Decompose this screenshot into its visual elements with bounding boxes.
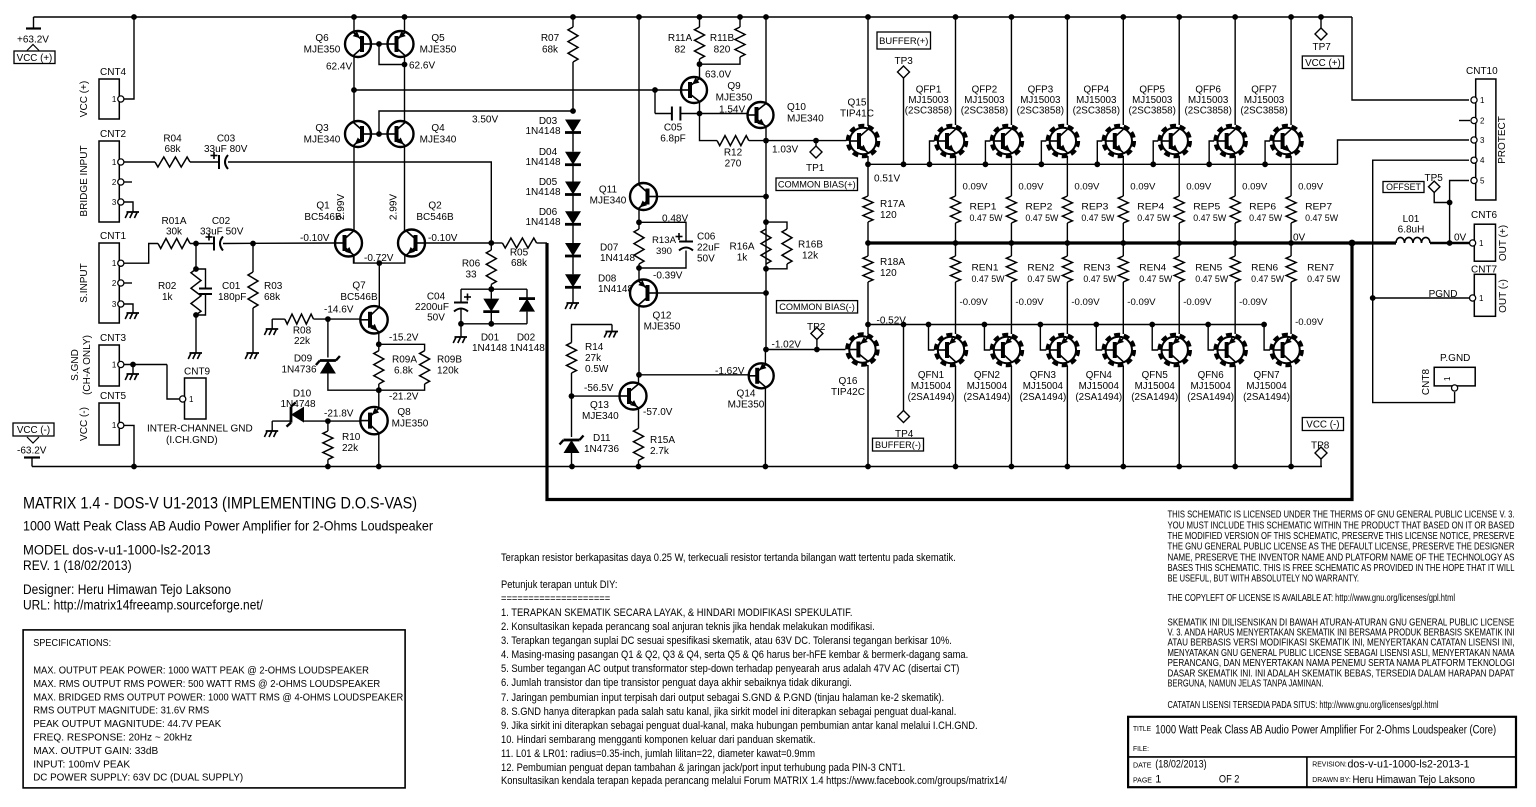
svg-text:CNT8: CNT8 [1421, 369, 1432, 396]
resistor R02 [191, 269, 201, 315]
svg-text:(2SC3858): (2SC3858) [905, 106, 952, 117]
wire Q13 collector [638, 375, 640, 385]
svg-text:D02: D02 [517, 333, 536, 344]
wire Q12 base to bias line [657, 292, 766, 294]
svg-text:QFN1: QFN1 [918, 370, 944, 381]
svg-text:(2SC3858): (2SC3858) [961, 106, 1008, 117]
svg-text:R09B: R09B [437, 355, 462, 366]
wire CNT2 pin2 stub [124, 181, 132, 183]
svg-text:68k: 68k [511, 258, 528, 269]
svg-text:FILE:: FILE: [1133, 744, 1149, 753]
svg-text:1N4736: 1N4736 [281, 365, 316, 376]
svg-text:0.47 5W: 0.47 5W [970, 213, 1004, 224]
svg-text:0.09V: 0.09V [1018, 182, 1044, 193]
svg-text:33: 33 [465, 270, 477, 281]
connector CNT8 P.GND [1434, 367, 1475, 386]
svg-text:Q11: Q11 [599, 185, 618, 196]
wire CNT4 pin1 to rail [124, 17, 134, 99]
svg-text:1N4148: 1N4148 [525, 157, 560, 168]
svg-text:D10: D10 [293, 389, 312, 400]
node R03 junction [250, 241, 256, 247]
svg-text:C03: C03 [217, 134, 236, 145]
node 1.54V [697, 111, 703, 117]
svg-text:TIP42C: TIP42C [831, 387, 865, 398]
wire REN6 to QFN6 [1234, 282, 1236, 334]
transistor QFN2 MJ15004 [992, 335, 1022, 365]
transistor Q16 TIP42C [847, 334, 877, 364]
node Q7 base / D09 [325, 316, 331, 322]
diode D02 [526, 289, 528, 298]
svg-text:Heru Himawan Tejo Laksono: Heru Himawan Tejo Laksono [1353, 774, 1476, 786]
svg-text:REVISION:: REVISION: [1312, 760, 1347, 769]
svg-text:1N4736: 1N4736 [584, 444, 619, 455]
svg-text:-14.6V: -14.6V [324, 305, 354, 316]
svg-text:-63.2V: -63.2V [17, 446, 47, 457]
wire R03 to ground [252, 308, 254, 346]
svg-text:33uF 50V: 33uF 50V [200, 227, 244, 238]
svg-text:REP4: REP4 [1137, 202, 1165, 213]
transistor Q5 MJE350 [388, 31, 414, 57]
resistor R04 [155, 157, 190, 167]
svg-text:Q14: Q14 [737, 389, 756, 400]
ground below diode chain [572, 287, 574, 296]
node R02/C01 junction top [193, 241, 199, 247]
svg-text:1: 1 [1479, 294, 1484, 303]
connector CNT6 OUT(+) [1474, 224, 1495, 261]
wire Q16 collector to rail [867, 365, 869, 467]
svg-text:(2SA1494): (2SA1494) [908, 392, 955, 403]
svg-text:1: 1 [112, 95, 117, 104]
svg-text:-21.8V: -21.8V [324, 409, 354, 420]
node R13A top [636, 219, 642, 225]
svg-text:1: 1 [112, 421, 117, 430]
wire CNT3 to CNT9 [167, 365, 179, 400]
svg-text:MJE350: MJE350 [392, 419, 429, 430]
svg-text:-21.2V: -21.2V [389, 392, 419, 403]
node Q3 Q4 bases [376, 131, 382, 137]
svg-text:CNT3: CNT3 [100, 333, 127, 344]
svg-text:0.09V: 0.09V [1130, 182, 1156, 193]
wire column A x=354 [353, 17, 355, 263]
wire: VCC(+) rail drop to CNT10 pin 1 [1352, 17, 1469, 100]
resistor R16B parallel [766, 222, 787, 229]
resistor R06 [490, 243, 492, 250]
svg-text:BASES THIS SCHEMATIC. THIS IS: BASES THIS SCHEMATIC. THIS IS FREE SCHEM… [1168, 563, 1515, 574]
transistor Q8 MJE350 [360, 407, 387, 434]
wire to R02/C01 pair [195, 244, 197, 270]
svg-text:Q10: Q10 [787, 102, 806, 113]
svg-text:THIS SCHEMATIC IS LICENSED UND: THIS SCHEMATIC IS LICENSED UNDER THE THE… [1168, 510, 1515, 521]
resistor R11A [699, 17, 701, 27]
svg-text:DC POWER SUPPLY: 63V DC (DUAL: DC POWER SUPPLY: 63V DC (DUAL SUPPLY) [33, 772, 243, 784]
resistor R14 [572, 325, 613, 343]
wire Q12 collector down [638, 268, 640, 281]
transistor Q7 BC546B [360, 306, 387, 333]
svg-text:0.47 5W: 0.47 5W [1139, 274, 1173, 285]
diode D06 [572, 195, 574, 212]
svg-text:1N4748: 1N4748 [280, 399, 315, 410]
wire R01A to C02 [190, 243, 214, 245]
svg-text:R07: R07 [541, 33, 560, 44]
svg-text:0.47 5W: 0.47 5W [972, 274, 1006, 285]
svg-text:R16B: R16B [798, 240, 823, 251]
svg-text:6.8k: 6.8k [394, 366, 414, 377]
svg-text:(2SA1494): (2SA1494) [1131, 392, 1178, 403]
connector CNT4 VCC(+) [99, 79, 119, 119]
svg-text:QFN4: QFN4 [1086, 370, 1113, 381]
node R13A bottom [636, 265, 642, 271]
svg-text:MJ15004: MJ15004 [967, 381, 1008, 392]
svg-text:0V: 0V [1293, 233, 1306, 244]
resistor R01A [158, 239, 190, 249]
svg-text:2: 2 [112, 279, 117, 288]
capacitor C05 [654, 90, 656, 114]
svg-text:1N4148: 1N4148 [525, 126, 560, 137]
resistor R03 [252, 244, 254, 273]
svg-text:2: 2 [112, 178, 117, 187]
node buffer(-) line [865, 322, 871, 328]
svg-text:3: 3 [1480, 136, 1485, 145]
transistor QFP7 MJ15003 [1290, 17, 1292, 125]
wire Q11 emitter to R13A [638, 209, 640, 222]
wire CNT1 pin2 stub [124, 282, 132, 284]
svg-text:MJ15004: MJ15004 [1246, 381, 1287, 392]
wire: top VCC(+) rail [34, 16, 1353, 18]
svg-text:OUT (-): OUT (-) [1498, 279, 1509, 313]
connector CNT1 S.INPUT [99, 243, 119, 323]
svg-text:C06: C06 [697, 232, 716, 243]
svg-text:MJ15003: MJ15003 [1244, 95, 1285, 106]
wire QFP4 emitter [1122, 156, 1124, 196]
svg-text:SPECIFICATIONS:: SPECIFICATIONS: [33, 637, 111, 649]
svg-text:MJE340: MJE340 [420, 135, 457, 146]
svg-text:1000 Watt Peak Class AB Audio: 1000 Watt Peak Class AB Audio Power Ampl… [23, 517, 433, 533]
svg-text:REP7: REP7 [1305, 202, 1332, 213]
svg-text:TP8: TP8 [1311, 441, 1330, 452]
svg-text:C05: C05 [664, 123, 683, 134]
svg-text:REP6: REP6 [1249, 202, 1276, 213]
svg-text:820: 820 [714, 45, 731, 56]
svg-text:Q1: Q1 [316, 201, 330, 212]
svg-text:1.03V: 1.03V [772, 145, 798, 156]
svg-text:30k: 30k [166, 227, 183, 238]
svg-text:REN5: REN5 [1195, 263, 1222, 274]
svg-text:BC546B: BC546B [340, 292, 378, 303]
svg-text:Designer: Heru Himawan Tejo La: Designer: Heru Himawan Tejo Laksono [23, 582, 231, 597]
svg-text:R13A: R13A [652, 235, 677, 246]
wire R04 to C03 [190, 161, 219, 163]
svg-text:MJE350: MJE350 [420, 45, 457, 56]
svg-text:REP2: REP2 [1025, 202, 1052, 213]
node Q11 base [763, 194, 769, 200]
svg-text:6.8uH: 6.8uH [1398, 225, 1425, 236]
transistor QFP1 MJ15003 [955, 17, 957, 125]
svg-text:0.47 5W: 0.47 5W [1195, 274, 1229, 285]
svg-text:-0.09V: -0.09V [1127, 297, 1156, 308]
svg-text:0.47 5W: 0.47 5W [1083, 274, 1117, 285]
svg-text:MAX. RMS OUTPUT RMS POWER: 500: MAX. RMS OUTPUT RMS POWER: 500 WATT RMS … [33, 678, 380, 690]
svg-text:CNT9: CNT9 [184, 367, 211, 378]
svg-text:0.09V: 0.09V [1074, 182, 1100, 193]
svg-text:-57.0V: -57.0V [643, 407, 673, 418]
test point TP2 [814, 347, 820, 353]
transistor Q15 TIP41C [848, 126, 878, 156]
wire QFP7 emitter [1290, 156, 1292, 196]
node TP5 junction [1447, 200, 1453, 206]
label COMMON BIAS(+) [776, 178, 858, 191]
test point TP3 [901, 161, 907, 167]
resistor REP7 [1286, 196, 1296, 223]
svg-text:REN7: REN7 [1307, 263, 1334, 274]
resistor REN1 [955, 243, 957, 256]
svg-text:(18/02/2013): (18/02/2013) [1155, 759, 1207, 771]
svg-text:4: 4 [1480, 156, 1485, 165]
svg-text:VCC (-): VCC (-) [79, 407, 90, 441]
svg-text:-1.62V: -1.62V [715, 366, 745, 377]
resistor R15A [634, 428, 644, 460]
wire Q16 base line [766, 349, 846, 351]
node Q12/Q13 junction [636, 372, 642, 378]
wire REN1 to QFN1 [955, 282, 957, 334]
svg-text:3.50V: 3.50V [472, 115, 498, 126]
svg-text:FREQ. RESPONSE: 20Hz ~ 20kHz: FREQ. RESPONSE: 20Hz ~ 20kHz [33, 732, 192, 744]
svg-text:CNT5: CNT5 [100, 391, 127, 402]
wire QFN4 collector to rail [1122, 366, 1124, 467]
svg-text:33uF 80V: 33uF 80V [204, 144, 248, 155]
svg-text:L01: L01 [1403, 214, 1420, 225]
svg-text:TP3: TP3 [895, 56, 914, 67]
node bus REP2 [1009, 240, 1015, 246]
svg-text:COMMON BIAS(-): COMMON BIAS(-) [779, 302, 855, 312]
svg-text:PAGE: PAGE [1133, 775, 1152, 784]
svg-text:MJ15004: MJ15004 [1135, 381, 1176, 392]
svg-text:R10: R10 [342, 432, 361, 443]
svg-text:D01: D01 [481, 333, 500, 344]
transistor QFN3 MJ15004 [1048, 335, 1078, 365]
VCC(-) terminal bottom-left [13, 423, 54, 436]
svg-text:1: 1 [1155, 774, 1161, 786]
node Q5 Q6 bases [376, 41, 382, 47]
svg-text:S.GND: S.GND [70, 349, 81, 381]
node NFB at bus [1349, 240, 1356, 247]
svg-text:PGND: PGND [1429, 289, 1458, 300]
svg-text:R11B: R11B [710, 33, 735, 44]
svg-text:MJ15003: MJ15003 [1076, 95, 1117, 106]
wire Q9 emitter [699, 102, 701, 114]
svg-text:URL: http://matrix14freeamp.so: URL: http://matrix14freeamp.sourceforge.… [23, 598, 263, 613]
diode D03 [565, 120, 581, 133]
svg-text:MJ15003: MJ15003 [1188, 95, 1229, 106]
node bus REP5 [1176, 240, 1182, 246]
wire QFP6 emitter [1234, 156, 1236, 196]
wire column B x=404.5 [404, 17, 406, 243]
svg-text:(2SA1494): (2SA1494) [1075, 392, 1122, 403]
svg-text:TP2: TP2 [807, 322, 826, 333]
svg-text:1N4148: 1N4148 [525, 217, 560, 228]
node Q15 emitter / buffer(+) line [865, 161, 871, 167]
svg-text:MJE340: MJE340 [304, 135, 341, 146]
svg-text:-1.02V: -1.02V [772, 340, 802, 351]
svg-text:R02: R02 [158, 281, 177, 292]
svg-text:Q7: Q7 [352, 281, 366, 292]
svg-text:THE GNU GENERAL PUBLIC LICENSE: THE GNU GENERAL PUBLIC LICENSE AS THE DE… [1168, 542, 1515, 553]
resistor R09A [378, 344, 380, 350]
svg-text:QFP6: QFP6 [1195, 85, 1221, 96]
svg-text:REV. 1 (18/02/2013): REV. 1 (18/02/2013) [23, 558, 132, 573]
svg-text:CATATAN LISENSI TERSEDIA PADA: CATATAN LISENSI TERSEDIA PADA SITUS: htt… [1168, 700, 1439, 711]
resistor R07 [572, 17, 574, 27]
svg-text:INPUT: 100mV PEAK: INPUT: 100mV PEAK [33, 758, 130, 770]
wire Q6/Q5 base tie to 62.6V node [371, 43, 388, 45]
specifications box [23, 630, 405, 788]
svg-text:BUFFER(+): BUFFER(+) [879, 35, 928, 46]
capacitor C01 parallel loop [196, 269, 206, 289]
svg-text:0.47 5W: 0.47 5W [1025, 213, 1059, 224]
node input/NFB divider [488, 240, 494, 246]
svg-text:Q3: Q3 [315, 123, 329, 134]
svg-text:Q6: Q6 [315, 33, 329, 44]
svg-text:270: 270 [725, 159, 742, 170]
svg-text:RMS OUTPUT MAGNITUDE: 31.6V RM: RMS OUTPUT MAGNITUDE: 31.6V RMS [33, 705, 209, 717]
svg-text:R09A: R09A [392, 355, 417, 366]
svg-text:OFFSET: OFFSET [1386, 182, 1421, 192]
resistor REP5 [1174, 196, 1184, 223]
svg-text:Q9: Q9 [727, 81, 741, 92]
zener D10 [271, 424, 273, 431]
svg-text:50V: 50V [427, 313, 445, 324]
svg-text:S.INPUT: S.INPUT [79, 263, 90, 302]
node clamp top [488, 286, 494, 292]
svg-text:R15A: R15A [650, 435, 675, 446]
svg-text:REP1: REP1 [970, 202, 997, 213]
svg-text:-0.09V: -0.09V [1295, 317, 1324, 328]
svg-text:BE USEFUL, BUT WITH ABSOLUTELY: BE USEFUL, BUT WITH ABSOLUTELY NO WARRAN… [1168, 574, 1360, 585]
label VCC(-) right [1302, 418, 1343, 431]
diode D05 [572, 165, 574, 182]
svg-text:MJE340: MJE340 [582, 411, 619, 422]
transistor QFP6 MJ15003 [1234, 17, 1236, 125]
svg-text:VCC (+): VCC (+) [17, 53, 53, 64]
wire Q9 collector [699, 64, 701, 78]
svg-text:COMMON BIAS(+): COMMON BIAS(+) [778, 180, 856, 190]
junction dots R02/C01 [193, 266, 199, 272]
svg-text:Q4: Q4 [431, 123, 445, 134]
svg-text:DRAWN BY:: DRAWN BY: [1312, 775, 1351, 784]
svg-text:2: 2 [1480, 117, 1485, 126]
diode D04 [572, 133, 574, 152]
clamp network rails [461, 288, 527, 290]
svg-text:-0.09V: -0.09V [1071, 297, 1100, 308]
svg-text:C02: C02 [212, 216, 231, 227]
wire QFP6 base [1209, 141, 1214, 164]
node 62.6V [402, 62, 408, 68]
svg-text:(I.CH.GND): (I.CH.GND) [166, 435, 218, 446]
node mid rail at column A [351, 87, 357, 93]
wire Q11 base to bias line [657, 196, 766, 198]
svg-text:R06: R06 [462, 259, 481, 270]
resistor R09B parallel [379, 344, 425, 350]
transistor Q3 MJE340 [345, 121, 371, 147]
connector CNT3 S.GND [99, 345, 119, 386]
wire QFP3 base [1041, 141, 1046, 164]
wire Q14 emitter up [764, 350, 766, 365]
svg-text:TP5: TP5 [1425, 173, 1444, 184]
node bus REP4 [1120, 240, 1126, 246]
svg-text:VCC (+): VCC (+) [1305, 58, 1341, 69]
svg-text:Q5: Q5 [431, 33, 445, 44]
resistor R17A [867, 164, 869, 196]
svg-text:-0.10V: -0.10V [300, 233, 330, 244]
label BUFFER(+) [877, 32, 931, 49]
svg-text:390: 390 [656, 246, 672, 257]
svg-text:-15.2V: -15.2V [389, 333, 419, 344]
ground at CNT2 pin3 [132, 205, 134, 212]
wire QFN6 collector to rail [1234, 366, 1236, 467]
wire QFN3 collector to rail [1066, 366, 1068, 467]
svg-text:NAME, PRESERVE THE INVENTOR NA: NAME, PRESERVE THE INVENTOR NAME AND PLA… [1168, 552, 1515, 563]
node Q12 base [763, 290, 769, 296]
wire Q7 emitter to R09 node [378, 332, 380, 344]
svg-text:1: 1 [1480, 96, 1485, 105]
svg-text:1: 1 [189, 395, 194, 404]
wire: bridge input line [124, 161, 155, 163]
node 63.0V [697, 61, 703, 67]
svg-text:120: 120 [880, 210, 897, 221]
resistor R08 [272, 318, 285, 320]
transistor Q10 MJE340 [748, 102, 774, 128]
wire Q10 collector to rail [765, 17, 767, 103]
svg-text:-0.09V: -0.09V [1015, 297, 1044, 308]
test point TP5 [1434, 192, 1449, 202]
resistor REP3 [1062, 196, 1072, 223]
svg-text:C01: C01 [222, 281, 241, 292]
svg-text:2200uF: 2200uF [415, 302, 449, 313]
svg-text:R01A: R01A [161, 216, 186, 227]
svg-text:BC546B: BC546B [304, 212, 342, 223]
svg-text:P.GND: P.GND [1440, 353, 1470, 364]
wire Q1/Q2 emitters join [354, 254, 405, 263]
svg-text:1N4148: 1N4148 [600, 253, 635, 264]
wire buffer(-) base line [868, 324, 1266, 326]
node bus REP1 [953, 240, 959, 246]
svg-text:DATE: DATE [1133, 760, 1152, 769]
wire QFP2 emitter [1010, 156, 1012, 196]
svg-text:YOU MUST INCLUDE THIS SCHEMATI: YOU MUST INCLUDE THIS SCHEMATIC WITHIN T… [1168, 520, 1515, 531]
resistor REP4 [1118, 196, 1128, 223]
resistor REN5 [1178, 243, 1180, 256]
connector CNT2 BRIDGE INPUT [99, 141, 119, 222]
svg-text:TITLE: TITLE [1133, 724, 1151, 733]
svg-text:1: 1 [1479, 239, 1484, 248]
VCC(+) terminal top-left [33, 17, 35, 29]
svg-text:-0.09V: -0.09V [1183, 297, 1212, 308]
svg-text:MJ15004: MJ15004 [1079, 381, 1120, 392]
resistor R16A [761, 229, 771, 264]
svg-text:(2SA1494): (2SA1494) [1243, 392, 1290, 403]
svg-text:1: 1 [1443, 376, 1452, 381]
svg-text:0.47 5W: 0.47 5W [1081, 213, 1115, 224]
svg-text:CNT1: CNT1 [100, 231, 127, 242]
svg-text:22k: 22k [342, 443, 359, 454]
svg-text:5: 5 [1480, 177, 1485, 186]
ground below R03 [252, 346, 254, 353]
svg-text:R11A: R11A [668, 33, 693, 44]
connector CNT5 VCC(-) [99, 403, 119, 445]
wire QFN2 collector to rail [1010, 366, 1012, 467]
svg-text:PROTECT: PROTECT [1497, 116, 1508, 164]
svg-text:OF 2: OF 2 [1219, 774, 1240, 786]
svg-text:CNT7: CNT7 [1471, 265, 1498, 276]
